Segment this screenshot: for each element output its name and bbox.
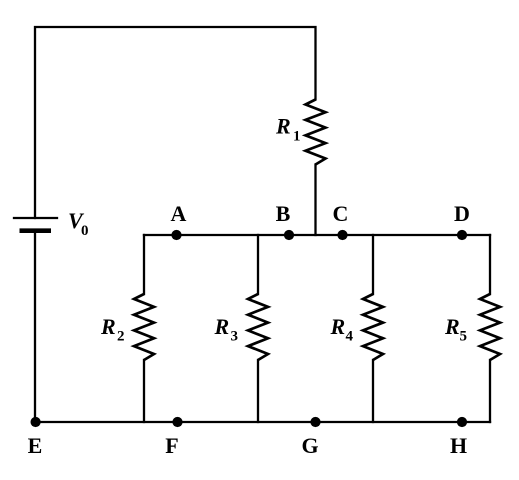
svg-text:4: 4 bbox=[346, 329, 354, 345]
svg-text:R: R bbox=[275, 114, 291, 139]
svg-text:E: E bbox=[28, 433, 43, 458]
svg-text:G: G bbox=[301, 433, 318, 458]
svg-text:F: F bbox=[165, 433, 178, 458]
svg-text:1: 1 bbox=[293, 129, 301, 145]
svg-text:H: H bbox=[450, 433, 467, 458]
svg-text:0: 0 bbox=[81, 223, 89, 239]
svg-text:R: R bbox=[214, 314, 230, 339]
svg-text:2: 2 bbox=[117, 329, 125, 345]
svg-text:3: 3 bbox=[231, 329, 239, 345]
svg-text:R: R bbox=[330, 314, 346, 339]
svg-text:5: 5 bbox=[460, 329, 468, 345]
svg-text:D: D bbox=[454, 201, 470, 226]
svg-text:R: R bbox=[444, 314, 460, 339]
svg-text:C: C bbox=[333, 201, 349, 226]
svg-text:A: A bbox=[171, 201, 187, 226]
svg-text:B: B bbox=[276, 201, 291, 226]
svg-text:R: R bbox=[100, 314, 116, 339]
